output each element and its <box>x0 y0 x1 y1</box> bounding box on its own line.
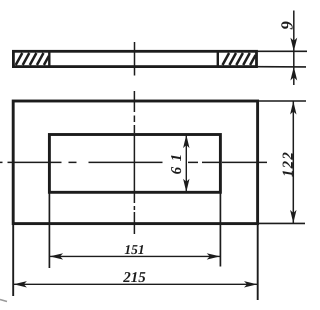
centerline vertical (top view) <box>134 42 136 76</box>
arrowhead dim 215 left (points left) <box>14 281 27 287</box>
arrowhead dim 122 top (points up) <box>290 101 296 114</box>
hatch boundary line left <box>48 51 50 66</box>
arrowhead dim 151 left (points left) <box>50 253 63 259</box>
top section view: plate outline <box>13 51 256 66</box>
dimension line 215 <box>14 283 258 285</box>
extension line right for dim 215 <box>257 223 259 300</box>
dimension line 61 <box>185 135 187 192</box>
stray scan mark bottom-left <box>0 300 7 302</box>
hatch left block <box>16 53 49 65</box>
bottom view: outer rectangle of plate <box>13 101 257 224</box>
hatch boundary line right <box>217 51 219 66</box>
extension line left for dim 151 <box>48 192 50 268</box>
centerline vertical (bottom view) <box>133 91 135 235</box>
dimension line 9 <box>293 11 295 86</box>
svg-text:215: 215 <box>122 270 146 286</box>
svg-text:9: 9 <box>278 21 297 30</box>
extension line top for dim 122 <box>258 100 306 102</box>
dimension line 122 <box>292 101 294 223</box>
dimension line 151 <box>50 255 220 257</box>
arrowhead dim 61 top (points up) <box>183 135 189 148</box>
extension line bottom for dim 122 <box>258 222 305 224</box>
svg-text:1: 1 <box>169 154 185 162</box>
svg-text:6: 6 <box>169 166 185 174</box>
svg-text:122: 122 <box>280 151 296 177</box>
extension line bottom for dim 9 <box>257 66 306 68</box>
extension line right for dim 151 <box>219 192 221 266</box>
arrowhead dim 151 right (points right) <box>207 253 220 259</box>
centerline horizontal (bottom view) <box>0 161 267 163</box>
arrowhead dim 61 bottom (points down) <box>183 179 189 192</box>
extension line left for dim 215 <box>12 223 14 296</box>
arrowhead dim 122 bottom (points down) <box>290 210 296 223</box>
arrowhead dim 9 top (points down) <box>290 38 297 52</box>
arrowhead dim 9 bottom (points up) <box>290 67 297 81</box>
arrowhead dim 215 right (points right) <box>244 281 257 287</box>
extension line top for dim 9 <box>257 50 307 52</box>
bottom view: inner rectangle (hole) <box>49 135 220 193</box>
hatch right block <box>223 53 256 65</box>
svg-text:151: 151 <box>124 242 144 257</box>
